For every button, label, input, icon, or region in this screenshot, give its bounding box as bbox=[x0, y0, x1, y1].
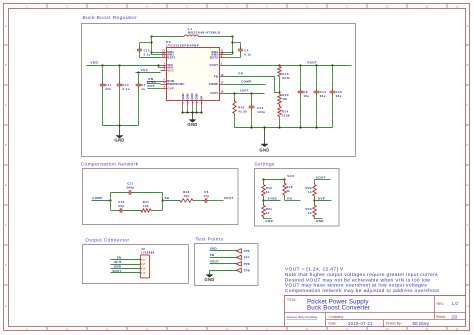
svg-text:Buck-Boost Regulator: Buck-Boost Regulator bbox=[83, 15, 138, 20]
svg-text:OVP: OVP bbox=[318, 196, 325, 200]
wire C17 bottom lead bbox=[102, 87, 104, 126]
svg-text:COMP: COMP bbox=[241, 79, 251, 83]
svg-text:VOUT may have severe overshoot: VOUT may have severe overshoot at low ou… bbox=[285, 283, 427, 289]
wire TP6 bbox=[210, 250, 237, 252]
title block frame bbox=[284, 295, 466, 297]
wire bottom branch left bbox=[111, 210, 121, 212]
wire COMP bbox=[226, 84, 266, 86]
wire C17 top lead bbox=[102, 66, 104, 85]
junction VCC/C7 bbox=[137, 71, 139, 73]
wire R18-C8 bbox=[194, 200, 206, 202]
svg-text:IOUT: IOUT bbox=[211, 91, 219, 95]
svg-text:1k: 1k bbox=[286, 189, 290, 193]
junction OVP node bbox=[313, 199, 315, 201]
wire R18s bottom lead bbox=[284, 196, 286, 201]
svg-text:EP: EP bbox=[199, 96, 203, 100]
wire R13-R20 bbox=[279, 79, 281, 93]
svg-text:42.2k: 42.2k bbox=[238, 110, 247, 114]
capacitor C17 bbox=[102, 82, 104, 85]
wire C15 top lead bbox=[251, 94, 253, 107]
svg-text:390p: 390p bbox=[126, 186, 134, 190]
test point TP6 bbox=[236, 249, 241, 253]
wire top branch right bbox=[132, 192, 163, 194]
svg-text:GND: GND bbox=[259, 147, 269, 152]
junction SW2 pin1 bbox=[231, 51, 233, 53]
wire R14 bottom lead bbox=[279, 119, 281, 128]
wire C10 lower lead bbox=[139, 52, 141, 58]
wire C16 top lead bbox=[332, 66, 334, 92]
wire C14 top lead bbox=[316, 66, 318, 92]
wire C12-R17 bbox=[123, 210, 142, 212]
wire VCC bbox=[136, 72, 161, 74]
wire IOUT bbox=[226, 93, 265, 95]
junction SYNC node bbox=[262, 199, 264, 201]
section box Test Points bbox=[195, 244, 259, 286]
wire C7 bottom lead bbox=[138, 87, 140, 126]
svg-text:TP6: TP6 bbox=[244, 249, 250, 253]
wire comp left vertical bbox=[110, 193, 112, 211]
svg-text:BST1: BST1 bbox=[167, 56, 175, 60]
svg-text:1.0: 1.0 bbox=[452, 301, 459, 306]
svg-text:Desired VOUT may not be achiev: Desired VOUT may not be achievable when … bbox=[285, 277, 430, 283]
junction IOUT/R16 bbox=[233, 92, 235, 94]
svg-text:SYNC: SYNC bbox=[268, 196, 278, 200]
wire TP7 bbox=[210, 257, 237, 259]
svg-text:TP7: TP7 bbox=[244, 256, 250, 260]
wire VOUT rail bbox=[226, 65, 352, 67]
wire R22-R23 bbox=[314, 197, 316, 206]
svg-text:GND: GND bbox=[316, 219, 324, 223]
wire C4 top link bbox=[233, 42, 241, 44]
svg-text:GND: GND bbox=[190, 93, 194, 99]
resistor R22 bbox=[314, 182, 316, 184]
svg-text:Buck Boost Converter: Buck Boost Converter bbox=[307, 305, 370, 312]
svg-text:C10: C10 bbox=[144, 49, 150, 53]
wire VDD rail bbox=[87, 65, 161, 67]
junction comp right node bbox=[161, 199, 163, 201]
junction gnd rail x316.4 bbox=[315, 126, 317, 128]
capacitor C10 bbox=[139, 47, 141, 50]
U4 bottom GND pin stubs bbox=[182, 101, 184, 106]
svg-text:VOUT: VOUT bbox=[112, 269, 121, 273]
U4 left pin stubs bbox=[161, 52, 167, 54]
svg-text:VCC: VCC bbox=[167, 69, 174, 73]
junction comp left node bbox=[109, 199, 111, 201]
junction VOUT x332.4 bbox=[331, 64, 333, 66]
test point TP9 bbox=[236, 268, 241, 272]
IC U4 LTC3112EFE#PBF body bbox=[167, 48, 220, 101]
svg-text:BST2: BST2 bbox=[210, 56, 218, 60]
wire SW1 to L1 bbox=[152, 36, 185, 38]
wire C13 top lead bbox=[119, 66, 121, 85]
wire to BST1 bbox=[140, 57, 161, 59]
section box Compensation Network bbox=[83, 169, 239, 225]
junction gnd rail bbox=[118, 124, 120, 126]
svg-text:0.1u: 0.1u bbox=[244, 52, 251, 56]
svg-text:H: H bbox=[5, 304, 7, 308]
svg-text:Settings: Settings bbox=[254, 162, 275, 167]
svg-text:2019-07-21: 2019-07-21 bbox=[348, 321, 373, 326]
svg-text:REV:: REV: bbox=[437, 302, 445, 306]
wire U4 gnd bus bbox=[183, 112, 202, 114]
svg-text:B: B bbox=[466, 63, 468, 67]
junction top right bbox=[231, 35, 233, 37]
svg-text:GND: GND bbox=[181, 93, 185, 99]
svg-text:MSS1048-473NLB: MSS1048-473NLB bbox=[188, 31, 221, 35]
svg-text:Compensation Network: Compensation Network bbox=[81, 162, 139, 167]
svg-text:GND: GND bbox=[187, 122, 197, 127]
wire comp right vertical bbox=[162, 193, 164, 211]
svg-text:FB: FB bbox=[165, 196, 170, 200]
svg-text:GND: GND bbox=[204, 277, 214, 282]
svg-text:FB: FB bbox=[214, 74, 218, 78]
resistor R18 settings bbox=[284, 181, 286, 183]
wire C16 bottom lead bbox=[332, 94, 334, 128]
resistor R14 bbox=[279, 104, 281, 106]
junction VOUT x279.2 bbox=[278, 64, 280, 66]
U4 right pin stubs bbox=[220, 52, 226, 54]
wire COMP in bbox=[92, 200, 111, 202]
svg-text:E: E bbox=[466, 183, 468, 187]
svg-text:22u: 22u bbox=[105, 87, 111, 91]
junction SW1 pin1 bbox=[150, 51, 152, 53]
svg-text:A: A bbox=[5, 24, 7, 28]
inductor L1 bbox=[184, 35, 198, 37]
svg-text:TP9: TP9 bbox=[244, 269, 250, 273]
capacitor C12 bbox=[118, 210, 121, 212]
svg-text:VDD: VDD bbox=[90, 60, 98, 64]
svg-text:Output Connector: Output Connector bbox=[85, 238, 129, 243]
wire to VIN2 bbox=[159, 67, 161, 69]
svg-text:10k: 10k bbox=[143, 204, 149, 208]
wire TP8 bbox=[210, 263, 237, 265]
wire SYNC bbox=[264, 200, 281, 202]
wire R19 top lead bbox=[263, 180, 265, 185]
svg-text:Note that higher output voltag: Note that higher output voltages require… bbox=[285, 272, 438, 278]
svg-text:22u: 22u bbox=[336, 94, 342, 98]
svg-text:EN: EN bbox=[287, 196, 292, 200]
svg-text:1M: 1M bbox=[282, 97, 287, 101]
wire VCC tee bbox=[264, 179, 285, 181]
wire SW1 vertical bbox=[151, 37, 153, 55]
capacitor C6 bbox=[300, 89, 302, 92]
resistor R18 bbox=[178, 200, 180, 202]
wire C6 bottom lead bbox=[300, 94, 302, 128]
wire TP9 to gnd bbox=[209, 271, 211, 272]
junction VCC right bbox=[283, 178, 285, 180]
wire J2 pin 1 bbox=[111, 259, 141, 261]
wire J2 pin 2 bbox=[111, 264, 141, 266]
svg-text:VDD: VDD bbox=[210, 247, 217, 251]
test point TP7 bbox=[236, 255, 241, 259]
wire EN to RUN bbox=[148, 81, 161, 83]
wire R23 bottom lead bbox=[314, 217, 316, 219]
wire C15 bottom lead bbox=[251, 109, 253, 128]
svg-text:11: 11 bbox=[425, 5, 428, 9]
wire R16 bottom lead bbox=[234, 114, 236, 128]
svg-text:1u: 1u bbox=[141, 87, 145, 91]
wire SW2 vertical bbox=[232, 37, 234, 55]
wire output ground rail bbox=[235, 127, 333, 129]
junction VCC left bbox=[262, 178, 264, 180]
svg-text:VOUT = [1.24, 12.47] V: VOUT = [1.24, 12.47] V bbox=[285, 267, 344, 273]
wire to SW2 pin2 bbox=[226, 54, 233, 56]
svg-text:EE Diary: EE Diary bbox=[413, 321, 430, 326]
svg-text:Company:: Company: bbox=[329, 315, 345, 319]
ground test points bbox=[209, 272, 211, 275]
wire R16 top lead bbox=[234, 94, 236, 102]
svg-text:Date:: Date: bbox=[329, 322, 337, 326]
wire to SW1 pin2 bbox=[152, 54, 161, 56]
wire C14 bottom lead bbox=[316, 94, 318, 128]
svg-text:LTC3112EFE#PBF: LTC3112EFE#PBF bbox=[166, 43, 199, 47]
svg-text:FB: FB bbox=[239, 72, 244, 76]
svg-text:Drawn By:: Drawn By: bbox=[386, 322, 402, 326]
wire to SW1 pin1 bbox=[152, 52, 161, 54]
svg-text:GND: GND bbox=[185, 93, 189, 99]
svg-text:VOUT: VOUT bbox=[224, 196, 234, 200]
svg-text:12: 12 bbox=[455, 5, 459, 9]
svg-text:47p: 47p bbox=[203, 194, 209, 198]
junction VOUT x316.4 bbox=[315, 64, 317, 66]
svg-text:VOUT: VOUT bbox=[316, 175, 326, 179]
svg-text:VOUT: VOUT bbox=[209, 63, 218, 67]
junction C10 top bbox=[150, 41, 152, 43]
svg-text:0.1u: 0.1u bbox=[123, 87, 130, 91]
svg-text:TP8: TP8 bbox=[244, 262, 250, 266]
junction gnd rail x279.2 bbox=[278, 126, 280, 128]
svg-text:GND: GND bbox=[114, 138, 124, 143]
wire TP9 bbox=[210, 270, 237, 272]
svg-text:TITLE:: TITLE: bbox=[287, 298, 297, 302]
svg-text:10k: 10k bbox=[183, 194, 189, 198]
svg-text:VCC: VCC bbox=[287, 174, 295, 178]
junction VDD/C17 bbox=[101, 64, 103, 66]
wire VOUT settings bbox=[315, 179, 331, 181]
wire L1 to SW2 bbox=[199, 36, 233, 38]
svg-text:OVP: OVP bbox=[148, 84, 155, 88]
svg-text:10: 10 bbox=[385, 327, 389, 331]
junction IOUT/C15 bbox=[250, 92, 252, 94]
wire R18s top lead bbox=[284, 180, 286, 184]
svg-text:GND: GND bbox=[195, 93, 199, 99]
junction FB node bbox=[278, 91, 280, 93]
wire R19-R21 bbox=[263, 197, 265, 206]
resistor R17 bbox=[139, 210, 141, 212]
wire C4 lower lead bbox=[240, 52, 242, 58]
svg-text:22p: 22p bbox=[118, 204, 124, 208]
wire J2 pin 3 bbox=[111, 268, 141, 270]
svg-text:A: A bbox=[466, 24, 468, 28]
wire input cap ground rail bbox=[103, 125, 139, 127]
wire OVP pin bbox=[148, 88, 161, 90]
junction VDD/VIN2 bbox=[157, 64, 159, 66]
svg-text:1k: 1k bbox=[266, 211, 270, 215]
svg-text:IOUT: IOUT bbox=[114, 260, 122, 264]
section box Buck-Boost Regulator bbox=[82, 24, 356, 157]
svg-text:OVP: OVP bbox=[167, 86, 174, 90]
svg-text:100p: 100p bbox=[257, 110, 265, 114]
junction gnd rail x264 bbox=[263, 126, 265, 128]
svg-text:FB: FB bbox=[210, 253, 214, 257]
ground input caps bbox=[119, 126, 121, 136]
wire GND stub left bbox=[264, 218, 272, 220]
resistor R19 bbox=[263, 182, 265, 184]
junction top left bbox=[150, 35, 152, 37]
wire GND stub right bbox=[315, 218, 323, 220]
svg-text:11: 11 bbox=[425, 327, 428, 331]
svg-text:10u: 10u bbox=[303, 94, 309, 98]
capacitor C16 bbox=[332, 89, 334, 92]
wire to SW2 pin1 bbox=[226, 52, 233, 54]
svg-text:1760868: 1760868 bbox=[141, 251, 155, 255]
connector J2 body bbox=[140, 255, 149, 278]
svg-text:F: F bbox=[5, 223, 7, 227]
capacitor C14 bbox=[316, 89, 318, 92]
svg-text:22u: 22u bbox=[320, 94, 326, 98]
wire to VOUT label bbox=[208, 200, 224, 202]
wire OVP bbox=[315, 200, 332, 202]
resistor R13 bbox=[279, 64, 281, 66]
wire VIN1-VIN2 link bbox=[158, 66, 160, 68]
wire C4 upper lead bbox=[240, 43, 242, 50]
wire C10 upper lead bbox=[139, 43, 141, 50]
svg-text:GND: GND bbox=[265, 219, 273, 223]
svg-text:110k: 110k bbox=[282, 114, 290, 118]
wire R21 bottom lead bbox=[263, 217, 265, 219]
wire C13 bottom lead bbox=[119, 87, 121, 126]
wire bottom branch right bbox=[152, 210, 163, 212]
svg-text:VOUT: VOUT bbox=[210, 260, 219, 264]
section box Output Connector bbox=[83, 245, 189, 284]
svg-text:Test Points: Test Points bbox=[196, 237, 224, 242]
svg-text:H: H bbox=[466, 304, 468, 308]
resistor R20 bbox=[279, 92, 281, 94]
svg-text:604k: 604k bbox=[282, 76, 290, 80]
svg-text:2/2: 2/2 bbox=[452, 314, 458, 319]
capacitor C11 bbox=[127, 192, 130, 194]
svg-text:1k: 1k bbox=[308, 190, 312, 194]
svg-text:IOUT: IOUT bbox=[240, 89, 249, 93]
svg-text:J2: J2 bbox=[141, 247, 145, 251]
wire R22 top lead bbox=[314, 180, 316, 185]
svg-text:10: 10 bbox=[385, 5, 389, 9]
capacitor C4 bbox=[240, 47, 242, 50]
wire FB bbox=[226, 77, 280, 93]
section box Settings bbox=[255, 169, 340, 227]
svg-text:COMP: COMP bbox=[209, 82, 218, 86]
wire EN bbox=[285, 200, 301, 202]
svg-text:Compensation network may be ad: Compensation network may be adjusted to … bbox=[285, 288, 440, 294]
wire FB mid bbox=[163, 200, 181, 202]
junction VDD/C13 bbox=[118, 64, 120, 66]
svg-text:E: E bbox=[5, 183, 7, 187]
svg-text:B: B bbox=[5, 63, 7, 67]
svg-text:COMP: COMP bbox=[92, 196, 102, 200]
wire SYNC to PWM bbox=[147, 83, 161, 85]
resistor R23 bbox=[314, 203, 316, 205]
svg-text:12: 12 bbox=[455, 327, 459, 331]
resistor R16 bbox=[234, 99, 236, 101]
svg-text:0.1u: 0.1u bbox=[144, 52, 151, 56]
svg-text:1k: 1k bbox=[266, 190, 270, 194]
svg-text:VCC: VCC bbox=[141, 68, 149, 72]
svg-text:F: F bbox=[467, 223, 469, 227]
wire to BST2 bbox=[226, 57, 241, 59]
capacitor C8 bbox=[203, 200, 206, 202]
wire C7 top lead bbox=[138, 73, 140, 85]
svg-text:1k: 1k bbox=[308, 211, 312, 215]
junction gnd rail x251.4 bbox=[250, 126, 252, 128]
wire C6 top lead bbox=[300, 66, 302, 92]
junction C4 top bbox=[231, 41, 233, 43]
capacitor C15 bbox=[251, 104, 253, 107]
svg-text:C4: C4 bbox=[244, 49, 248, 53]
junction VOUT x300.2 bbox=[299, 64, 301, 66]
capacitor C13 bbox=[119, 82, 121, 85]
wire C10 top link bbox=[140, 42, 152, 44]
test point TP8 bbox=[236, 262, 241, 266]
ground under U4 bbox=[192, 112, 194, 119]
resistor R21 bbox=[263, 203, 265, 205]
wire top branch left bbox=[111, 192, 130, 194]
wire J2 pin 4 bbox=[111, 272, 141, 274]
svg-text:Sheet:: Sheet: bbox=[436, 315, 446, 319]
ground output network bbox=[264, 128, 266, 144]
capacitor C7 bbox=[138, 82, 140, 85]
svg-text:www.ee-diary.com​/blog: www.ee-diary.com​/blog bbox=[287, 315, 318, 319]
junction gnd rail x300.2 bbox=[299, 126, 301, 128]
svg-text:VOUT: VOUT bbox=[307, 60, 317, 64]
